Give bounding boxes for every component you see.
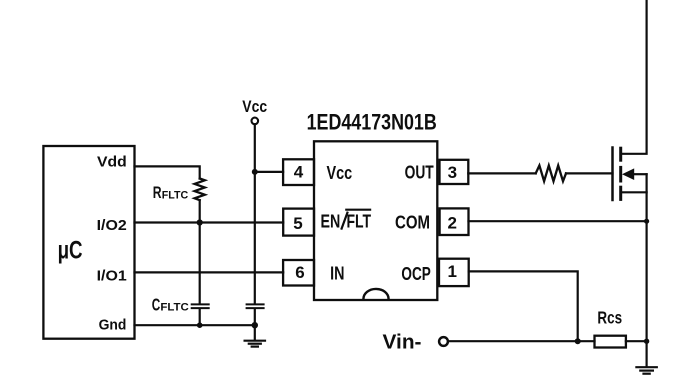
- pin 1 box: [439, 259, 469, 286]
- ground symbol right: [636, 341, 656, 374]
- IC U1 body: [314, 141, 437, 300]
- junction CFLTC/Gnd: [197, 322, 203, 328]
- svg-text:Vcc: Vcc: [327, 163, 353, 183]
- svg-text:3: 3: [448, 163, 457, 182]
- svg-text:COM: COM: [395, 213, 430, 233]
- slash in EN/FLT: [342, 213, 348, 229]
- wire Vcc rail: [254, 124, 256, 303]
- capacitor C2 plates: [247, 303, 264, 305]
- transistor Q1 body wire: [634, 173, 647, 175]
- junction Vcc/pin4: [252, 169, 258, 175]
- wire resistor to gate: [566, 172, 613, 174]
- pin 4 box: [283, 159, 314, 185]
- svg-text:μC: μC: [58, 236, 83, 264]
- pin 3 box: [440, 160, 469, 184]
- wire RFLTC bottom: [199, 200, 201, 222]
- svg-text:FLTC: FLTC: [160, 302, 188, 314]
- resistor Rg zigzag: [536, 166, 566, 182]
- svg-text:OCP: OCP: [401, 264, 430, 284]
- svg-text:Gnd: Gnd: [99, 317, 127, 334]
- resistor Rcs box: [595, 336, 626, 348]
- svg-text:Vcc: Vcc: [242, 98, 267, 116]
- transistor Q1 gate bar: [611, 148, 614, 201]
- wire OCP pin 1 down to Vin-: [469, 271, 578, 341]
- wire Vcc to pin 4: [255, 171, 283, 173]
- wire CFLTC bottom: [199, 309, 201, 325]
- junction C2/Gnd: [252, 322, 258, 328]
- wire COM pin 2 to rail: [469, 220, 647, 222]
- wire pin 3 to gate resistor: [468, 172, 535, 174]
- wire Vdd stub to RFLTC: [135, 166, 200, 178]
- svg-text:2: 2: [447, 214, 456, 233]
- svg-text:I/O1: I/O1: [97, 267, 128, 284]
- svg-text:1ED44173N01B: 1ED44173N01B: [307, 109, 437, 134]
- ground symbol left: [245, 325, 265, 346]
- svg-text:6: 6: [295, 263, 304, 282]
- transistor Q1 drain contact: [621, 0, 647, 154]
- resistor RFLTC zigzag: [195, 179, 205, 201]
- transistor Q1 channel segments: [619, 148, 622, 199]
- svg-text:OUT: OUT: [405, 163, 434, 183]
- capacitor CFLTC plates: [192, 303, 209, 305]
- junction Rcs/rail: [644, 339, 649, 344]
- microcontroller U2 box: [43, 146, 134, 339]
- wire junction to Rcs: [578, 340, 595, 342]
- wire CFLTC top: [199, 223, 201, 304]
- wire source down rail: [645, 174, 647, 341]
- svg-text:Rcs: Rcs: [597, 308, 622, 328]
- junction OCP/Vin-: [575, 338, 581, 344]
- svg-text:FLTC: FLTC: [162, 189, 188, 201]
- svg-text:I/O2: I/O2: [97, 217, 127, 234]
- svg-text:R: R: [153, 183, 162, 202]
- svg-text:Vin-: Vin-: [383, 332, 422, 354]
- terminal Vcc circle: [252, 118, 259, 125]
- svg-text:Vdd: Vdd: [97, 153, 127, 170]
- transistor Q1 source contact: [621, 191, 647, 193]
- wire Vin- to junction: [448, 340, 578, 342]
- wire C2 bottom: [254, 309, 256, 325]
- svg-text:FLT: FLT: [347, 212, 372, 232]
- wire I/O1 to pin 6: [135, 271, 284, 273]
- svg-text:EN: EN: [321, 212, 341, 232]
- svg-text:C: C: [152, 294, 161, 314]
- overline on FLT: [346, 209, 370, 211]
- pin 6 box: [283, 260, 314, 286]
- svg-text:1: 1: [447, 262, 456, 281]
- pin 5 box: [283, 209, 314, 236]
- IC U1 bottom notch: [363, 289, 388, 299]
- junction RFLTC/I-O2: [197, 219, 203, 225]
- svg-text:4: 4: [294, 163, 304, 182]
- transistor Q1 body diode arrow: [622, 168, 634, 180]
- pin 2 box: [440, 208, 469, 235]
- wire I/O2 to pin 5: [135, 221, 284, 223]
- svg-text:5: 5: [293, 214, 302, 233]
- terminal Vin- circle: [439, 337, 448, 346]
- svg-text:IN: IN: [330, 264, 344, 284]
- junction COM/rail: [644, 219, 649, 224]
- wire Rcs to rail: [626, 340, 647, 342]
- wire Gnd: [135, 324, 255, 326]
